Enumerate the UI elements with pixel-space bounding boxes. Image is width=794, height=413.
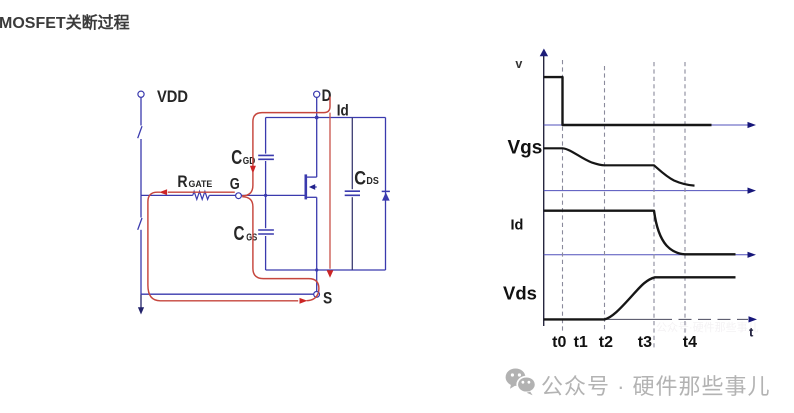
D terminal — [314, 91, 320, 97]
svg-text:Id: Id — [337, 103, 349, 120]
capacitor branch upper wire — [265, 118, 267, 154]
waveform Vgs — [544, 148, 695, 185]
svg-text:t0: t0 — [552, 334, 566, 351]
svg-text:C: C — [354, 168, 366, 190]
wire D to mosfet drain — [316, 98, 318, 178]
wire driver low side — [140, 195, 142, 217]
mosfet body arrow — [309, 184, 315, 190]
svg-text:GS: GS — [246, 231, 257, 243]
wire mosfet source to S — [316, 197, 318, 291]
wire gate from driver to resistor — [141, 194, 193, 196]
dashed line t0 — [562, 60, 564, 331]
svg-text:t3: t3 — [638, 334, 652, 351]
svg-text:公众号·硬件那些事儿: 公众号·硬件那些事儿 — [656, 320, 759, 334]
red arrow left on gate path — [159, 189, 167, 195]
horizontal axis 4 dashed part — [659, 318, 748, 320]
dashed line t4 — [684, 62, 686, 339]
arrow down at left bottom — [138, 307, 144, 314]
svg-text:G: G — [230, 176, 240, 193]
waveform vertical axis — [543, 55, 545, 326]
svg-text:t2: t2 — [599, 334, 613, 351]
wire G to mosfet gate — [241, 194, 305, 196]
mosfet source connection — [306, 196, 317, 198]
svg-text:GATE: GATE — [189, 179, 213, 190]
horizontal axis 2 — [544, 190, 748, 192]
svg-text:C: C — [231, 146, 242, 169]
inner box top edge — [266, 117, 386, 119]
red path Id drain-source — [329, 113, 331, 269]
svg-text:t4: t4 — [683, 334, 697, 351]
red path C_GD arrow to G — [242, 172, 253, 196]
axis1 arrow — [748, 122, 757, 128]
capacitor branch middle wire — [265, 161, 267, 228]
waveform Id — [544, 211, 736, 255]
svg-text:R: R — [177, 172, 187, 191]
wire VDD vertical upper — [140, 97, 142, 125]
svg-text:Vds: Vds — [503, 283, 537, 304]
wire VDD vertical to gate node — [140, 139, 142, 195]
dashed line t2 — [604, 66, 606, 331]
footer logo + text — [503, 365, 505, 367]
red arrow down Id — [327, 270, 334, 278]
wire to bottom rail — [140, 230, 142, 294]
axis up arrow — [540, 49, 548, 57]
inner box right edge — [385, 118, 387, 271]
switch jog lower — [138, 218, 142, 230]
node S — [314, 292, 320, 298]
C_DS branch upper wire — [351, 118, 353, 190]
mosfet drain connection — [306, 176, 317, 178]
red path G leftwards over resistor — [168, 191, 235, 193]
waveform V — [544, 77, 712, 125]
red arrow right on bottom path — [300, 298, 308, 304]
svg-text:S: S — [323, 289, 332, 307]
horizontal axis 1 — [544, 124, 748, 126]
title MOSFET关断过程 — [0, 9, 130, 33]
axis4 arrow — [749, 316, 758, 322]
capacitor C_DS plates — [345, 191, 360, 195]
resistor R_GATE — [193, 191, 210, 199]
svg-text:v: v — [515, 57, 522, 71]
svg-text:VDD: VDD — [157, 88, 188, 106]
horizontal axis 3 — [544, 254, 748, 256]
mosfet Q1 channel bar — [304, 174, 307, 199]
capacitor C_GS plates — [258, 230, 274, 234]
capacitor branch lower wire — [265, 236, 267, 270]
body diode triangle — [382, 192, 390, 200]
svg-text:Id: Id — [511, 218, 524, 234]
red path Cgs loop G to S — [242, 197, 319, 292]
red arrow down on C_GD branch — [250, 166, 256, 174]
inner box bottom edge — [266, 269, 386, 271]
svg-text:DS: DS — [366, 175, 378, 187]
VDD terminal — [138, 91, 144, 97]
dashed line t3 — [653, 62, 655, 348]
svg-text:t1: t1 — [574, 334, 588, 351]
waveform Vds — [544, 277, 736, 319]
svg-text:Vgs: Vgs — [508, 138, 543, 159]
body diode bar — [382, 190, 390, 192]
C_DS branch lower wire — [351, 197, 353, 270]
svg-text:C: C — [234, 222, 245, 245]
wire resistor to G — [209, 194, 235, 196]
node G — [236, 193, 242, 199]
junction dot top edge — [315, 116, 319, 120]
red hook to S — [307, 293, 319, 301]
wire stub below rail — [140, 294, 142, 308]
axis3 arrow — [748, 252, 757, 258]
red path miller loop: D to C_GD to G — [253, 97, 330, 167]
axis2 arrow — [748, 188, 757, 194]
red path driver return loop — [148, 192, 298, 301]
junction dot bottom edge — [315, 268, 318, 271]
horizontal axis 4 solid part — [544, 318, 659, 320]
bottom rail wire — [141, 293, 314, 295]
capacitor C_GD plates — [258, 155, 274, 159]
junction gate x cap branch — [264, 194, 267, 197]
mosfet body connection — [314, 186, 317, 188]
switch jog upper — [138, 126, 142, 138]
